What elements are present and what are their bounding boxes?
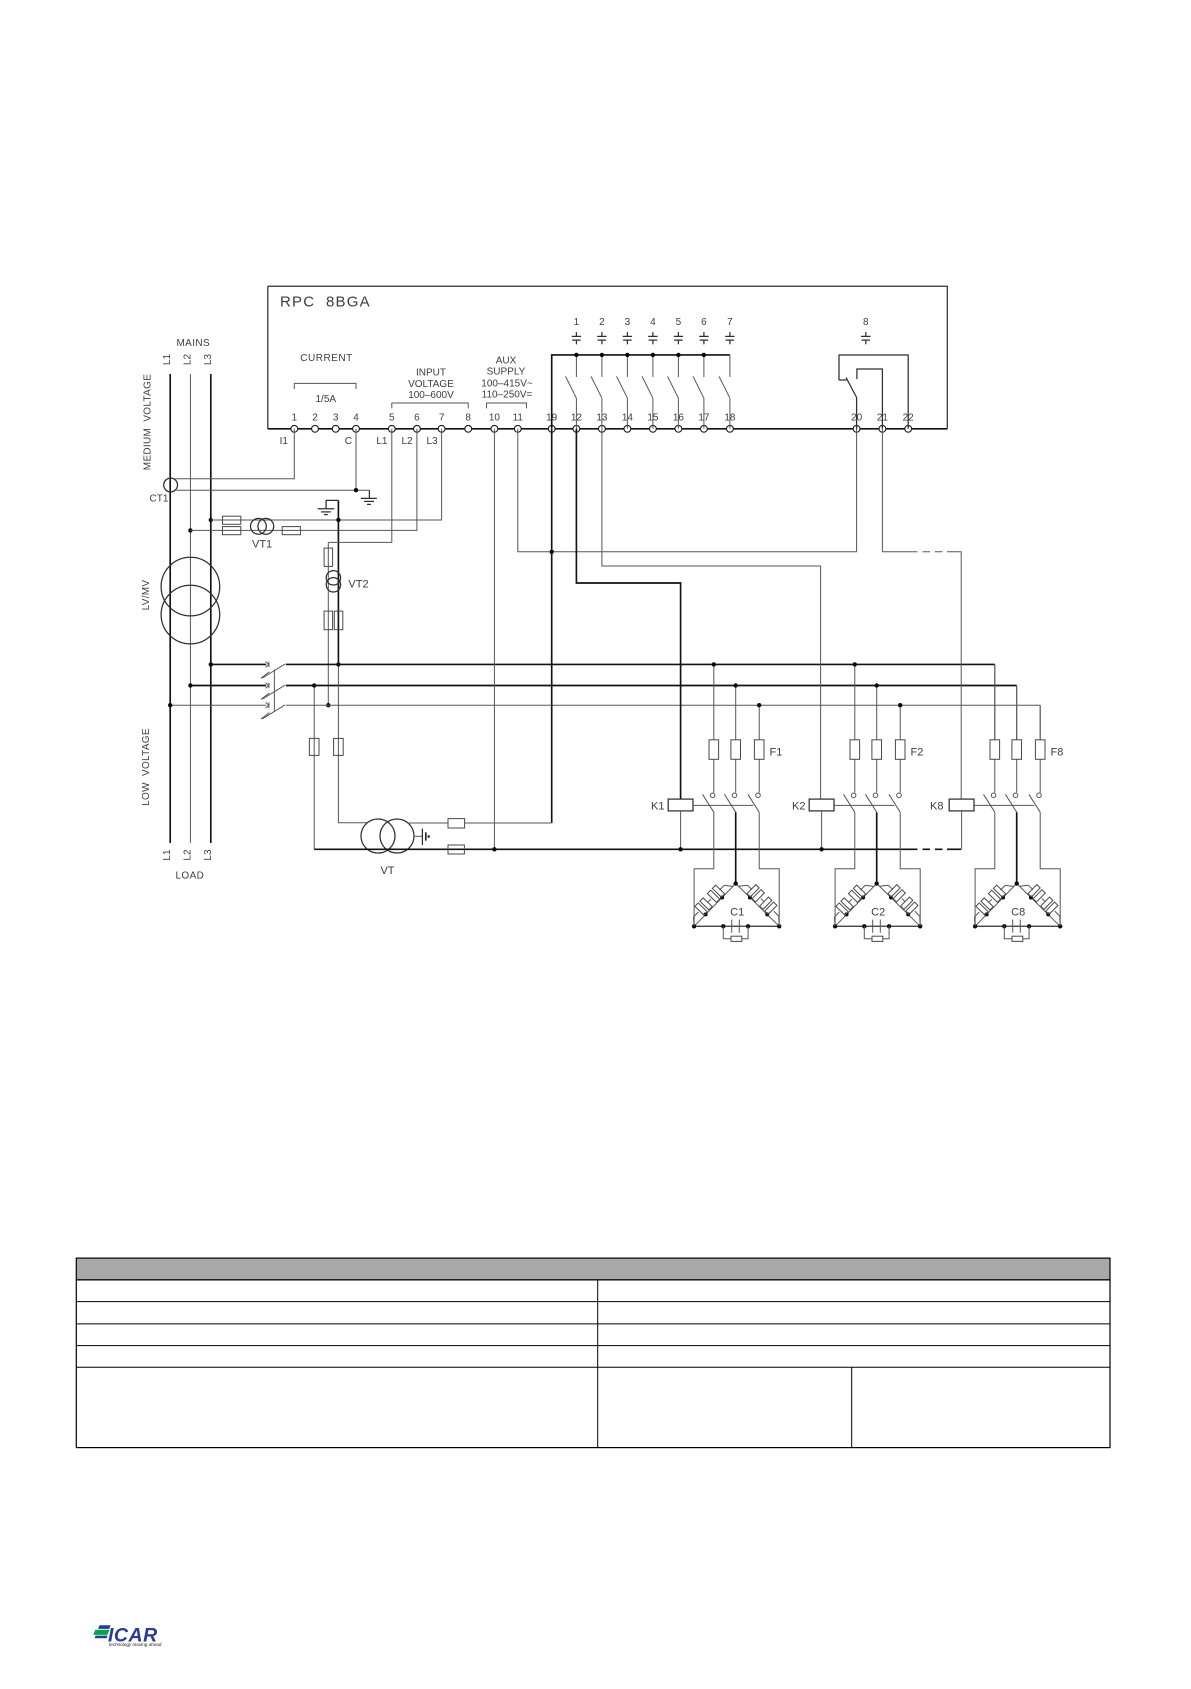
terminal 18 of RPC controller (727, 425, 734, 432)
wire bus L1' (bottom LV bus) corner drop to step 8 bank (1039, 705, 1041, 740)
switch pole arcing tip on bus L3' (top LV bus) (261, 672, 269, 678)
svg-text:5: 5 (389, 413, 395, 424)
svg-text:VT2: VT2 (348, 578, 368, 590)
transformer VT1 winding B (258, 518, 274, 534)
wire terminal 21 to contactor K8 coil (882, 429, 910, 552)
fuse VT2 secondary right (earth link) (334, 611, 343, 630)
junction node bus to bank column (898, 703, 902, 707)
wire LV bus L3' (top LV bus) end section (947, 663, 995, 665)
svg-text:1: 1 (292, 413, 298, 424)
wire VT2 primary drop (327, 542, 329, 705)
svg-text:K2: K2 (792, 800, 805, 812)
wire VT1 lower (L2 to input L2 terminal 6) (190, 429, 417, 531)
wire LV bus L1' (bottom LV bus) right section (286, 704, 910, 706)
switch pole arcing tip on bus L2' (middle LV bus) (261, 693, 269, 699)
junction node on relay bus at step 1 (574, 353, 578, 357)
svg-text:C1: C1 (730, 906, 744, 918)
transformer VT winding A (361, 819, 395, 853)
table body grid (76, 1280, 1110, 1448)
svg-text:3: 3 (625, 317, 631, 328)
wire LV bus L1' (bottom LV bus) left section (170, 704, 266, 706)
wire terminal 21 branch to K8 coil feed (947, 552, 961, 799)
wire changeover blade to terminal 20 (856, 398, 858, 429)
svg-text:VT1: VT1 (252, 538, 272, 550)
bracket CURRENT group (terminals 1-4) (294, 383, 356, 389)
junction node bus to bank column (853, 662, 857, 666)
terminal 5 of RPC controller (388, 425, 395, 432)
svg-text:L1: L1 (162, 354, 173, 366)
capacitor step symbol 3 (626, 332, 628, 336)
wire internal relay common bus (from terminal 19) (552, 355, 730, 429)
wire terminal 4 drop (355, 429, 357, 490)
svg-text:1: 1 (574, 317, 580, 328)
junction node CT return / terminal 4 (354, 488, 358, 492)
svg-text:INPUT: INPUT (416, 368, 446, 379)
svg-text:100–600V: 100–600V (408, 390, 454, 401)
junction node bus to bank column (712, 662, 716, 666)
current transformer CT1 on phase L1 (164, 478, 178, 492)
junction node on relay bus at step 4 (651, 353, 655, 357)
bracket AUX SUPPLY group (terminals 10-11) (487, 403, 527, 408)
wire phase L2 (medium voltage riser) (189, 374, 191, 843)
wire LV bus L3' (top LV bus) dashed continuation (910, 663, 947, 665)
terminal 4 of RPC controller (353, 425, 360, 432)
wire terminal row bottom edge of RPC box (268, 428, 948, 430)
junction node K1 coil on return line (678, 847, 682, 851)
junction node mains to bus L2' (middle LV bus) (188, 683, 192, 687)
svg-text:C2: C2 (871, 906, 885, 918)
terminal 16 of RPC controller (675, 425, 682, 432)
contact blade of changeover relay 8 (846, 378, 857, 398)
svg-text:L3: L3 (426, 436, 438, 447)
svg-text:3: 3 (333, 413, 339, 424)
junction node bus L2' / VT primary return (312, 683, 316, 687)
terminal 22 of RPC controller (905, 425, 912, 432)
terminal 7 of RPC controller (438, 425, 445, 432)
switch mechanical link bar (273, 670, 275, 712)
wire earth link lower (bus L3' to VT primary) (338, 664, 367, 822)
svg-text:F1: F1 (770, 746, 783, 758)
terminal 1 of RPC controller (291, 425, 298, 432)
wire phase L3 (medium voltage riser) (210, 374, 212, 843)
terminal 17 of RPC controller (701, 425, 708, 432)
svg-text:technology moving ahead: technology moving ahead (109, 1642, 162, 1647)
svg-text:L1: L1 (162, 849, 173, 861)
ground symbol near VT1 (measuring circuit earth) (326, 500, 338, 508)
terminal 19 of RPC controller (548, 425, 555, 432)
controller RPC 8BGA enclosure box (268, 286, 948, 429)
wire CT1 k lead to terminal 1 (I1) (174, 429, 295, 479)
svg-text:L2: L2 (182, 354, 193, 366)
wire terminal 19 to VT secondary vertical (551, 429, 553, 823)
transformer VT2 winding B (326, 578, 340, 592)
wire coil return dashed section (910, 848, 947, 850)
relay contact 1 (bus to terminal 12) (575, 355, 577, 377)
switch pole blade on bus L2' (middle LV bus) (262, 685, 285, 699)
transformer VT winding B (380, 819, 414, 853)
junction node on relay bus at step 2 (600, 353, 604, 357)
relay contact 6 (bus to terminal 17) (703, 355, 705, 377)
svg-text:8: 8 (465, 413, 471, 424)
wire terminal 19 to VT secondary horizontal (465, 822, 552, 824)
wire terminal 21 branch dashed section (910, 551, 947, 553)
relay contact 3 (bus to terminal 14) (626, 355, 628, 377)
svg-text:I1: I1 (280, 436, 289, 447)
fuse VT2 secondary left (324, 611, 333, 630)
wire changeover top link (terminal 22 branch) (839, 355, 908, 429)
svg-text:SUPPLY: SUPPLY (487, 367, 526, 378)
junction node K2 coil on return line (819, 847, 823, 851)
capacitor step symbol 5 (677, 332, 679, 336)
capacitor step symbol 1 (575, 332, 577, 336)
switch pole arcing tip on bus L1' (bottom LV bus) (261, 713, 269, 719)
svg-text:L2: L2 (182, 849, 193, 861)
capacitor bank group 1 (K1/F1/C1) (668, 664, 781, 941)
fuse VT secondary upper (448, 819, 465, 828)
transformer VT1 winding A (251, 518, 267, 534)
wire phase L1 (medium voltage riser) (169, 374, 171, 843)
switch pole blade on bus L3' (top LV bus) (262, 664, 285, 678)
wire LV bus L1' (bottom LV bus) dashed continuation (910, 704, 947, 706)
wire coil return end to K8 coil (947, 848, 961, 850)
wire input L1 terminal 5 to VT2 (328, 429, 392, 543)
junction node terminal 10 wire / return line (492, 847, 496, 851)
wire changeover NO branch (terminal 21) (857, 369, 883, 429)
wire terminal 10 to VT secondary return (493, 429, 495, 850)
svg-text:VT: VT (380, 865, 394, 877)
svg-text:6: 6 (701, 317, 707, 328)
svg-text:4: 4 (650, 317, 656, 328)
bracket INPUT VOLTAGE group (terminals 5-8) (392, 403, 468, 408)
svg-text:L3: L3 (203, 849, 214, 861)
svg-text:11: 11 (513, 413, 524, 424)
fuse VT primary return (309, 738, 319, 755)
junction node on relay bus at step 5 (676, 353, 680, 357)
junction node mains to bus L1' (bottom LV bus) (168, 703, 172, 707)
logo stripe green middle (93, 1630, 109, 1635)
terminal 2 of RPC controller (312, 425, 319, 432)
switch pole contact seat on bus L3' (top LV bus) (266, 662, 269, 668)
wire aux supply terminal 11 to terminal 20 (518, 429, 857, 552)
svg-text:C8: C8 (1011, 906, 1025, 918)
terminal 3 of RPC controller (332, 425, 339, 432)
transformer VT2 winding A (326, 571, 340, 585)
wire CT1 l lead to terminal 4 (C) (176, 489, 369, 491)
junction node bus L3' / earth link (336, 662, 340, 666)
svg-text:7: 7 (727, 317, 733, 328)
junction node VT2 on LV bus L1' (326, 703, 330, 707)
logo stripe blue bottom (95, 1636, 108, 1639)
screen earth symbol of VT (414, 835, 422, 837)
svg-text:LOW VOLTAGE: LOW VOLTAGE (141, 728, 152, 806)
fuse VT2 primary (324, 548, 333, 566)
wire bus L3' (top LV bus) corner drop to step 8 bank (994, 664, 996, 739)
svg-text:L2: L2 (401, 436, 413, 447)
svg-text:10: 10 (489, 413, 501, 424)
junction node aux line / terminal 19 wire (550, 550, 554, 554)
junction node L2 to VT1 lower wire (188, 528, 192, 532)
capacitor bank group 8 (K8/F8/C8) (949, 664, 1062, 941)
svg-text:7: 7 (439, 413, 445, 424)
svg-text:F8: F8 (1051, 746, 1064, 758)
svg-text:4: 4 (353, 413, 359, 424)
fuse VT secondary lower (448, 845, 464, 854)
wire changeover common stub (839, 379, 847, 381)
terminal 8 of RPC controller (465, 425, 472, 432)
svg-text:110–250V=: 110–250V= (482, 390, 533, 401)
svg-text:100–415V~: 100–415V~ (481, 378, 533, 389)
switch pole contact seat on bus L2' (middle LV bus) (266, 683, 269, 689)
svg-text:LV/MV: LV/MV (141, 580, 152, 611)
svg-text:C: C (345, 436, 352, 447)
switch pole contact seat on bus L1' (bottom LV bus) (266, 702, 269, 708)
terminal 10 of RPC controller (491, 425, 498, 432)
switch pole blade on bus L1' (bottom LV bus) (262, 705, 285, 719)
capacitor step symbol 7 (729, 332, 731, 336)
svg-text:L1: L1 (376, 436, 388, 447)
terminal 11 of RPC controller (514, 425, 521, 432)
junction node L3 to VT1 upper wire (209, 518, 213, 522)
svg-text:L3: L3 (203, 354, 214, 366)
svg-text:6: 6 (414, 413, 420, 424)
svg-text:K1: K1 (651, 800, 664, 812)
svg-text:CURRENT: CURRENT (300, 353, 352, 364)
wire terminal 13 to contactor K2 coil feed (602, 429, 821, 799)
wire LV bus L1' (bottom LV bus) end section (947, 704, 1040, 706)
relay contact 5 (bus to terminal 16) (677, 355, 679, 377)
terminal 21 of RPC controller (879, 425, 886, 432)
junction node on relay bus at step 3 (625, 353, 629, 357)
junction node on relay bus at step 6 (702, 353, 706, 357)
svg-text:K8: K8 (930, 800, 943, 812)
wire LV bus L2' (middle LV bus) left section (190, 685, 266, 687)
junction node bus to bank column (875, 683, 879, 687)
fuse VT1 output (282, 527, 300, 535)
terminal 13 of RPC controller (599, 425, 606, 432)
wire bus L2' (middle LV bus) corner drop to step 8 bank (1016, 686, 1018, 740)
terminal 6 of RPC controller (414, 425, 421, 432)
fuse VT1 upper (223, 516, 241, 524)
logo stripe blue top (98, 1625, 111, 1629)
svg-text:2: 2 (312, 413, 318, 424)
relay contact 2 (bus to terminal 13) (601, 355, 603, 377)
svg-text:VOLTAGE: VOLTAGE (408, 379, 454, 390)
wire LV bus L2' (middle LV bus) right section (286, 685, 910, 687)
fuse VT1 lower (223, 527, 241, 535)
svg-text:MEDIUM VOLTAGE: MEDIUM VOLTAGE (143, 374, 154, 470)
wire VT1 upper (L3 to input L3 terminal 7) (211, 429, 442, 520)
terminal 15 of RPC controller (650, 425, 657, 432)
capacitor step symbol 6 (703, 332, 705, 336)
junction node bus to bank column (734, 683, 738, 687)
svg-text:8: 8 (863, 317, 869, 328)
svg-text:MAINS: MAINS (176, 338, 210, 349)
terminal 14 of RPC controller (624, 425, 631, 432)
wire terminal 12 to contactor K1 coil feed (576, 429, 680, 799)
capacitor bank group 2 (K2/F2/C2) (809, 664, 922, 941)
transformer LV/MV primary winding (161, 557, 220, 616)
relay contact 7 (bus to terminal 18) (729, 355, 731, 377)
capacitor step symbol 2 (601, 332, 603, 336)
junction node bus to bank column (757, 703, 761, 707)
svg-text:RPC 8BGA: RPC 8BGA (280, 294, 371, 311)
wire earth link down to LV bus L3' (337, 500, 339, 664)
fuse VT primary feed (334, 738, 344, 755)
wire LV bus L2' (middle LV bus) end section (947, 685, 1017, 687)
wire coil return line (VT secondary to contactor coils) (314, 848, 910, 850)
wire LV bus L3' (top LV bus) left section (211, 663, 266, 665)
table header row (gray) (76, 1258, 1110, 1280)
capacitor step symbol 8 (865, 332, 867, 336)
svg-text:CT1: CT1 (150, 494, 169, 505)
svg-text:LOAD: LOAD (175, 870, 204, 881)
junction node mains to bus L3' (top LV bus) (209, 662, 213, 666)
capacitor step symbol 4 (652, 332, 654, 336)
junction node earth link / VT1 upper wire (336, 518, 340, 522)
relay contact 4 (bus to terminal 15) (652, 355, 654, 377)
svg-text:AUX: AUX (496, 356, 517, 367)
wire LV bus L3' (top LV bus) right section (286, 663, 910, 665)
svg-text:1/5A: 1/5A (316, 394, 337, 405)
svg-text:5: 5 (676, 317, 682, 328)
terminal 20 of RPC controller (853, 425, 860, 432)
transformer LV/MV secondary winding (161, 585, 220, 644)
wire VT primary return (bus L2' to VT) (313, 686, 315, 850)
ground symbol at CT return (368, 490, 370, 498)
svg-text:2: 2 (599, 317, 605, 328)
svg-text:F2: F2 (911, 746, 924, 758)
wire LV bus L2' (middle LV bus) dashed continuation (910, 685, 947, 687)
terminal 12 of RPC controller (573, 425, 580, 432)
wire VT secondary upper lead (408, 822, 448, 824)
